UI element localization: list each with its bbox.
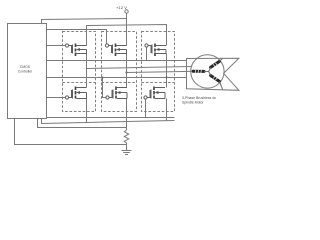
- svg-text:3-Phase Brushless dc: 3-Phase Brushless dc: [182, 96, 216, 100]
- svg-text:Spindle Motor: Spindle Motor: [182, 100, 204, 104]
- svg-text:Controller: Controller: [18, 70, 33, 74]
- svg-text:+12 V: +12 V: [116, 5, 127, 10]
- svg-text:CMOS: CMOS: [20, 65, 31, 69]
